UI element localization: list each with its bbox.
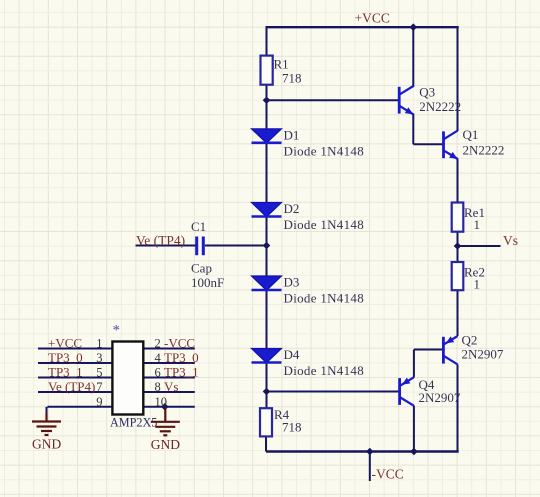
svg-text:2: 2 xyxy=(155,337,161,351)
svg-text:2N2222: 2N2222 xyxy=(463,142,505,157)
svg-text:TP3_1: TP3_1 xyxy=(48,364,83,379)
svg-text:2N2222: 2N2222 xyxy=(419,99,461,114)
svg-text:GND: GND xyxy=(151,437,180,452)
svg-text:TP3_0: TP3_0 xyxy=(48,350,83,365)
svg-text:Cap: Cap xyxy=(191,261,212,276)
svg-text:6: 6 xyxy=(155,366,161,380)
svg-text:718: 718 xyxy=(282,70,302,85)
svg-text:1: 1 xyxy=(474,217,481,232)
svg-text:-VCC: -VCC xyxy=(164,335,195,350)
svg-text:D2: D2 xyxy=(284,201,300,216)
svg-text:8: 8 xyxy=(155,380,161,394)
svg-text:+VCC: +VCC xyxy=(355,11,390,26)
svg-text:D4: D4 xyxy=(284,347,300,362)
svg-text:5: 5 xyxy=(96,366,102,380)
svg-text:Q3: Q3 xyxy=(419,84,435,99)
svg-text:Diode 1N4148: Diode 1N4148 xyxy=(284,363,365,378)
svg-text:+VCC: +VCC xyxy=(48,335,82,350)
svg-text:10: 10 xyxy=(155,395,168,409)
svg-text:Ve (TP4): Ve (TP4) xyxy=(136,233,185,248)
svg-text:4: 4 xyxy=(155,351,162,365)
svg-text:Q2: Q2 xyxy=(462,333,478,348)
svg-text:TP3_1: TP3_1 xyxy=(164,364,199,379)
svg-text:7: 7 xyxy=(96,380,102,394)
svg-text:1: 1 xyxy=(96,337,102,351)
svg-text:D3: D3 xyxy=(284,275,300,290)
svg-text:AMP2X5: AMP2X5 xyxy=(110,415,157,429)
svg-text:-VCC: -VCC xyxy=(372,467,404,482)
svg-text:TP3_0: TP3_0 xyxy=(164,350,199,365)
svg-text:D1: D1 xyxy=(284,127,300,142)
svg-text:Diode 1N4148: Diode 1N4148 xyxy=(284,143,365,158)
svg-text:3: 3 xyxy=(96,351,102,365)
svg-text:*: * xyxy=(113,323,121,339)
svg-text:9: 9 xyxy=(96,395,102,409)
svg-text:GND: GND xyxy=(32,437,61,452)
svg-text:Diode 1N4148: Diode 1N4148 xyxy=(284,217,365,232)
svg-text:Diode 1N4148: Diode 1N4148 xyxy=(284,291,365,306)
svg-text:Q1: Q1 xyxy=(463,127,479,142)
svg-text:2N2907: 2N2907 xyxy=(462,346,504,361)
svg-text:Vs: Vs xyxy=(503,233,518,248)
svg-text:C1: C1 xyxy=(191,219,206,234)
svg-text:Ve (TP4): Ve (TP4) xyxy=(48,379,95,394)
svg-text:1: 1 xyxy=(474,276,481,291)
svg-text:718: 718 xyxy=(282,419,302,434)
svg-text:100nF: 100nF xyxy=(191,275,224,290)
svg-text:2N2907: 2N2907 xyxy=(419,390,461,405)
svg-text:Vs: Vs xyxy=(164,379,178,394)
